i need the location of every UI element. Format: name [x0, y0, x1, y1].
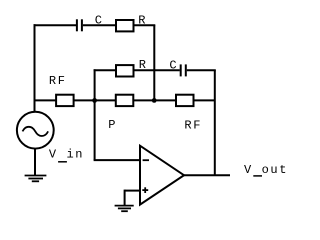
wire from resistor RF (left) to node A and resistor P [74, 99, 116, 101]
wire inverting-input branch horizontal to op-amp [94, 159, 140, 161]
svg-text:R: R [138, 14, 147, 28]
wire from source bottom to ground [34, 149, 36, 176]
wire output from op-amp [184, 174, 230, 176]
wire from resistor R (inner) across center vertical to capacitor C (inner) [134, 69, 180, 71]
wire inner-loop left vertical [94, 69, 96, 100]
wire from capacitor C to resistor R (top) [83, 24, 116, 26]
wire inverting-input branch vertical from node A [94, 100, 96, 160]
svg-text:R: R [139, 58, 148, 72]
wire center vertical from top row to node B [153, 25, 155, 100]
wire top row left segment to capacitor C [34, 24, 77, 26]
svg-text:C: C [95, 14, 104, 28]
label V_out [244, 163, 288, 177]
wire non-inverting input to ground [125, 190, 140, 206]
svg-text:RF: RF [184, 119, 202, 133]
label V_in [49, 148, 84, 162]
ground (below V_in) [25, 176, 47, 182]
resistor R (inner) [116, 65, 134, 76]
wire from resistor P to resistor RF (right) [134, 99, 177, 101]
wire main row from left vertical to resistor RF (left) [35, 99, 57, 101]
svg-text:V out: V out [244, 163, 288, 177]
wire top-left vertical from top row down to source [34, 24, 36, 112]
op-amp U1 [140, 146, 184, 205]
node B junction dot [152, 98, 157, 103]
svg-text:P: P [108, 118, 117, 132]
wire right feedback vertical down to output [214, 70, 216, 175]
resistor P [116, 95, 134, 106]
capacitor C (top) [77, 19, 82, 31]
resistor RF (left) [56, 95, 74, 106]
wire from capacitor C (inner) to right corner [187, 69, 216, 71]
capacitor C (inner) [181, 64, 186, 76]
svg-text:RF: RF [49, 74, 67, 88]
wire from resistor RF (right) to feedback vertical [194, 99, 215, 101]
node A junction dot [92, 98, 97, 103]
resistor R (top) [116, 20, 134, 31]
wire inner row left segment [94, 69, 116, 71]
wire from resistor R (top) to right corner [134, 24, 156, 26]
ground (op-amp non-inverting input) [115, 206, 134, 212]
svg-text:C: C [169, 59, 178, 73]
resistor RF (right) [176, 95, 194, 106]
svg-text:V in: V in [49, 148, 84, 162]
voltage source V_in [17, 112, 54, 149]
